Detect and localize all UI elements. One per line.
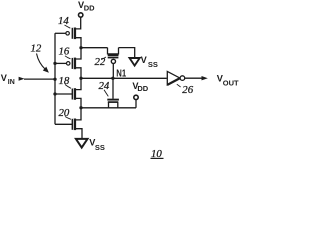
wire left gate rail <box>54 33 56 124</box>
label 12 leader arrow <box>37 54 49 73</box>
transistor M22 gate bar <box>108 57 119 59</box>
power VDD terminal top circle <box>79 13 83 17</box>
svg-text:DD: DD <box>137 84 148 93</box>
inverter U26 triangle <box>167 71 180 85</box>
label VOUT <box>217 73 239 87</box>
svg-text:V: V <box>141 55 148 65</box>
svg-text:24: 24 <box>99 80 110 92</box>
ground VSS bottom triangle <box>76 139 88 148</box>
node N1 junction dot <box>111 77 114 80</box>
transistor M16 gate bar <box>71 58 73 69</box>
node 16-gate junction dot <box>53 62 56 65</box>
svg-text:10: 10 <box>151 148 162 160</box>
transistor M16 source stub <box>75 48 81 59</box>
label 14 <box>58 15 69 27</box>
transistor M24 gate bar <box>107 99 119 101</box>
label VIN <box>1 73 15 86</box>
transistor M14 gate stub <box>55 32 66 34</box>
transistor M22 channel bar <box>108 54 119 56</box>
transistor M18 channel bar <box>74 88 76 100</box>
power VDD mid circle <box>134 95 138 99</box>
transistor M20 gate stub <box>55 123 72 125</box>
svg-text:V: V <box>1 73 8 83</box>
label 20 <box>59 107 70 119</box>
node VIN junction dot <box>53 78 56 81</box>
label VSS mid <box>141 55 158 69</box>
wire inverter output <box>185 77 202 79</box>
transistor M14 channel bar <box>74 28 76 40</box>
wire VIN to rail <box>24 78 55 80</box>
wire node C to transistor 24 bottom rail <box>81 107 136 109</box>
transistor M14 gate bubble <box>66 32 70 36</box>
label 26 leader <box>177 84 181 87</box>
label 16 leader <box>65 56 71 59</box>
svg-text:14: 14 <box>58 15 69 27</box>
transistor M24 source drain drops <box>109 102 118 108</box>
node A junction dot 14/16 <box>79 46 82 49</box>
wire node A to transistor 22 <box>81 47 108 49</box>
svg-text:IN: IN <box>8 77 15 86</box>
svg-text:SS: SS <box>148 60 158 69</box>
transistor M24 channel bar <box>108 101 119 103</box>
svg-text:18: 18 <box>59 75 70 87</box>
wire N1 to M24 gate <box>112 78 114 99</box>
svg-text:N1: N1 <box>116 67 126 78</box>
inverter U26 output bubble <box>180 76 185 81</box>
svg-text:16: 16 <box>59 45 70 57</box>
wire M22 right to VSS <box>119 48 135 58</box>
label VSS bottom <box>89 138 105 152</box>
transistor M20 drain stub <box>75 108 81 120</box>
label N1 <box>116 67 126 78</box>
transistor M16 gate stub <box>55 62 66 64</box>
svg-text:22: 22 <box>95 56 106 68</box>
transistor M20 channel bar <box>74 119 76 131</box>
label 22 leader <box>102 57 107 60</box>
label 14 leader <box>65 25 71 28</box>
label 10 underline <box>151 157 164 159</box>
svg-text:OUT: OUT <box>223 79 239 88</box>
transistor M18 source stub <box>75 98 81 107</box>
node 18-gate junction dot <box>53 92 56 95</box>
transistor M16 drain stub <box>75 68 81 79</box>
label 26 <box>182 84 193 96</box>
transistor M14 drain stub <box>75 38 81 48</box>
label 16 <box>59 45 70 57</box>
label 18 leader <box>65 85 71 89</box>
svg-text:12: 12 <box>31 43 42 55</box>
label VDD top <box>78 0 95 12</box>
node VOUT arrow <box>202 76 208 80</box>
ground VSS mid triangle <box>130 58 140 66</box>
transistor M20 gate bar <box>71 119 73 130</box>
label VDD mid <box>132 81 148 93</box>
svg-text:20: 20 <box>59 107 70 119</box>
label 12 <box>31 43 42 55</box>
transistor M14 source stub <box>75 17 81 29</box>
wire node B to inverter input <box>81 77 167 79</box>
node C junction dot 18/20 <box>79 106 82 109</box>
transistor M20 source stub <box>75 129 82 139</box>
node VIN input arrow <box>19 77 25 81</box>
transistor M16 gate bubble <box>66 62 70 66</box>
transistor M18 gate bar <box>71 89 73 100</box>
label 20 leader <box>65 117 71 120</box>
node B junction dot 16/18 <box>79 77 82 80</box>
label 18 <box>59 75 70 87</box>
wire M24 right to VDD <box>135 100 137 108</box>
transistor M22 left drop <box>108 48 119 54</box>
svg-text:SS: SS <box>95 143 105 152</box>
transistor M22 gate bubble <box>111 59 115 63</box>
transistor M14 gate bar <box>71 28 73 39</box>
label 10 <box>151 148 162 160</box>
wire M22 gate to N1 <box>112 63 114 78</box>
svg-text:26: 26 <box>182 84 193 96</box>
svg-text:DD: DD <box>84 3 95 12</box>
transistor M18 drain stub <box>75 78 81 89</box>
transistor M16 channel bar <box>74 58 76 70</box>
label 24 leader <box>104 90 108 97</box>
transistor M18 gate stub <box>55 93 72 95</box>
label 24 <box>99 80 110 92</box>
label 22 <box>95 56 106 68</box>
